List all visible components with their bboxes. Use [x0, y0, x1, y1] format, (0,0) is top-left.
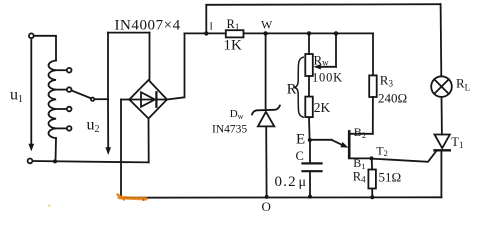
wire: lamp to thyristor anode	[441, 97, 443, 135]
wire: bridge bottom vertex to rail A	[148, 119, 150, 163]
junction: cap to bottom rail	[308, 195, 312, 199]
tap 1	[56, 69, 67, 71]
svg-text:C: C	[296, 149, 304, 163]
thyristor T1 cathode bar	[435, 149, 450, 151]
svg-text:E: E	[296, 132, 305, 148]
rectifier bridge diamond	[129, 80, 167, 119]
node W junction	[263, 31, 267, 35]
node: input terminal top-left	[29, 33, 34, 38]
wire: zener to bottom rail	[265, 126, 267, 196]
tap 4	[56, 127, 67, 129]
transistor T2 base bar	[348, 131, 351, 157]
zener diode Dw cathode bar with curled ends	[252, 106, 280, 115]
svg-text:B2: B2	[354, 125, 366, 140]
svg-text:1K: 1K	[224, 38, 243, 54]
resistor R3 box	[369, 75, 377, 97]
svg-text:RL: RL	[456, 76, 470, 93]
wire: node I to R1	[206, 32, 226, 34]
junction: coil to rail	[53, 159, 57, 163]
wire: Rw to 2K	[308, 76, 310, 97]
svg-text:Rw: Rw	[314, 52, 330, 67]
node I junction	[204, 31, 208, 35]
svg-text:100K: 100K	[312, 71, 343, 85]
tap 2	[56, 89, 67, 91]
svg-text:R: R	[287, 81, 297, 97]
wire: thyristor cathode to bottom rail	[440, 152, 442, 198]
wire: E to UJT emitter	[310, 139, 332, 141]
resistor R4 box	[368, 170, 376, 189]
wire: down to bridge top vertex	[149, 33, 151, 81]
svg-text:u1: u1	[10, 87, 23, 106]
wire: R4 to bottom rail	[371, 189, 373, 198]
wire: horizontal under IN4007 label	[108, 32, 150, 34]
wire: bottom rail B	[121, 196, 441, 198]
svg-text:51Ω: 51Ω	[379, 169, 402, 184]
brace grouping R = Rw + 2K	[294, 57, 303, 117]
wire: diamond horizontal diagonal	[129, 99, 167, 101]
wire u1 arrow: left rail with downward arrowhead	[30, 40, 32, 145]
wire: bottom rail A (transformer return)	[32, 161, 148, 162]
wire: switch riser to top corner	[107, 33, 109, 100]
wire: bridge left vertex (DC-)	[121, 99, 129, 101]
transistor T2 emitter arrow	[332, 140, 344, 146]
node E junction	[308, 138, 312, 142]
highlight: orange marker on bottom-left rail corner	[48, 195, 146, 208]
thyristor T1 triangle	[435, 135, 450, 149]
resistor 2K box	[305, 97, 313, 118]
lamp RL circle with cross	[431, 76, 452, 97]
svg-text:T2: T2	[376, 144, 388, 159]
wire: down to Rw	[308, 33, 310, 54]
svg-text:IN4007×4: IN4007×4	[115, 18, 181, 34]
potentiometer Rw box	[305, 54, 313, 76]
svg-text:T1: T1	[451, 135, 463, 150]
svg-text:W: W	[261, 17, 273, 31]
wire: R3 top from W rail	[372, 33, 374, 75]
junction: B1 node	[370, 156, 374, 160]
wire: top rail	[206, 3, 440, 6]
svg-text:IN4735: IN4735	[212, 124, 247, 136]
svg-text:240Ω: 240Ω	[378, 91, 407, 106]
svg-text:R3: R3	[380, 73, 394, 89]
svg-text:R1: R1	[227, 17, 240, 32]
wire: 2K down to node E	[308, 117, 311, 140]
svg-text:R4: R4	[353, 169, 366, 184]
svg-text:Dw: Dw	[230, 108, 244, 121]
zener diode Dw anode triangle	[258, 112, 274, 127]
svg-text:0.2: 0.2	[275, 174, 297, 190]
wire u2 arrow: bridge AC input down arrow	[107, 99, 109, 148]
wire: capacitor C bottom lead	[309, 171, 311, 196]
junction: Rw top on W rail	[307, 31, 311, 35]
junction: R4 at bottom rail	[370, 195, 374, 199]
wire: to node I	[185, 32, 207, 34]
svg-text:μ: μ	[299, 175, 307, 190]
wire: wiper drop	[335, 33, 337, 66]
wire: top rail down to lamp	[440, 4, 443, 76]
svg-text:O: O	[262, 199, 271, 214]
wire: gate from B1 to thyristor	[372, 151, 437, 162]
capacitor C plates	[303, 162, 322, 164]
wire: node I up to top rail	[205, 5, 207, 34]
wire: B1 to R4	[371, 158, 373, 169]
node: input terminal bottom-left	[28, 159, 33, 164]
svg-text:2K: 2K	[314, 100, 331, 115]
inductor: autotransformer winding	[49, 61, 57, 139]
wire: W down to zener	[265, 33, 267, 108]
wire: DC- drop to bottom rail	[120, 100, 122, 198]
svg-text:u2: u2	[87, 117, 100, 136]
wire: W rail to R3 corner	[266, 32, 373, 34]
wire: B1 lead	[349, 157, 371, 159]
junction: wiper branch on W rail	[334, 31, 338, 35]
svg-text:I: I	[210, 21, 213, 32]
wiper arrow into Rw	[320, 66, 336, 68]
wire: bridge right vertex (DC+)	[167, 33, 185, 99]
wire: coil bottom to bottom rail	[55, 138, 58, 161]
wire: capacitor C top lead	[309, 140, 311, 163]
wire: R3 bottom to B2	[372, 97, 374, 134]
junction: zener at node O	[265, 195, 269, 199]
switch arm from tap 2	[72, 91, 91, 99]
tap 3	[56, 108, 67, 110]
wire: R1 to node W	[244, 32, 266, 34]
resistor R1 box	[226, 30, 244, 37]
diode inside bridge	[141, 92, 155, 107]
wire: switch to bridge input	[94, 98, 108, 100]
wire: B2 lead	[349, 133, 373, 135]
wire: top node to coil top	[34, 36, 56, 61]
